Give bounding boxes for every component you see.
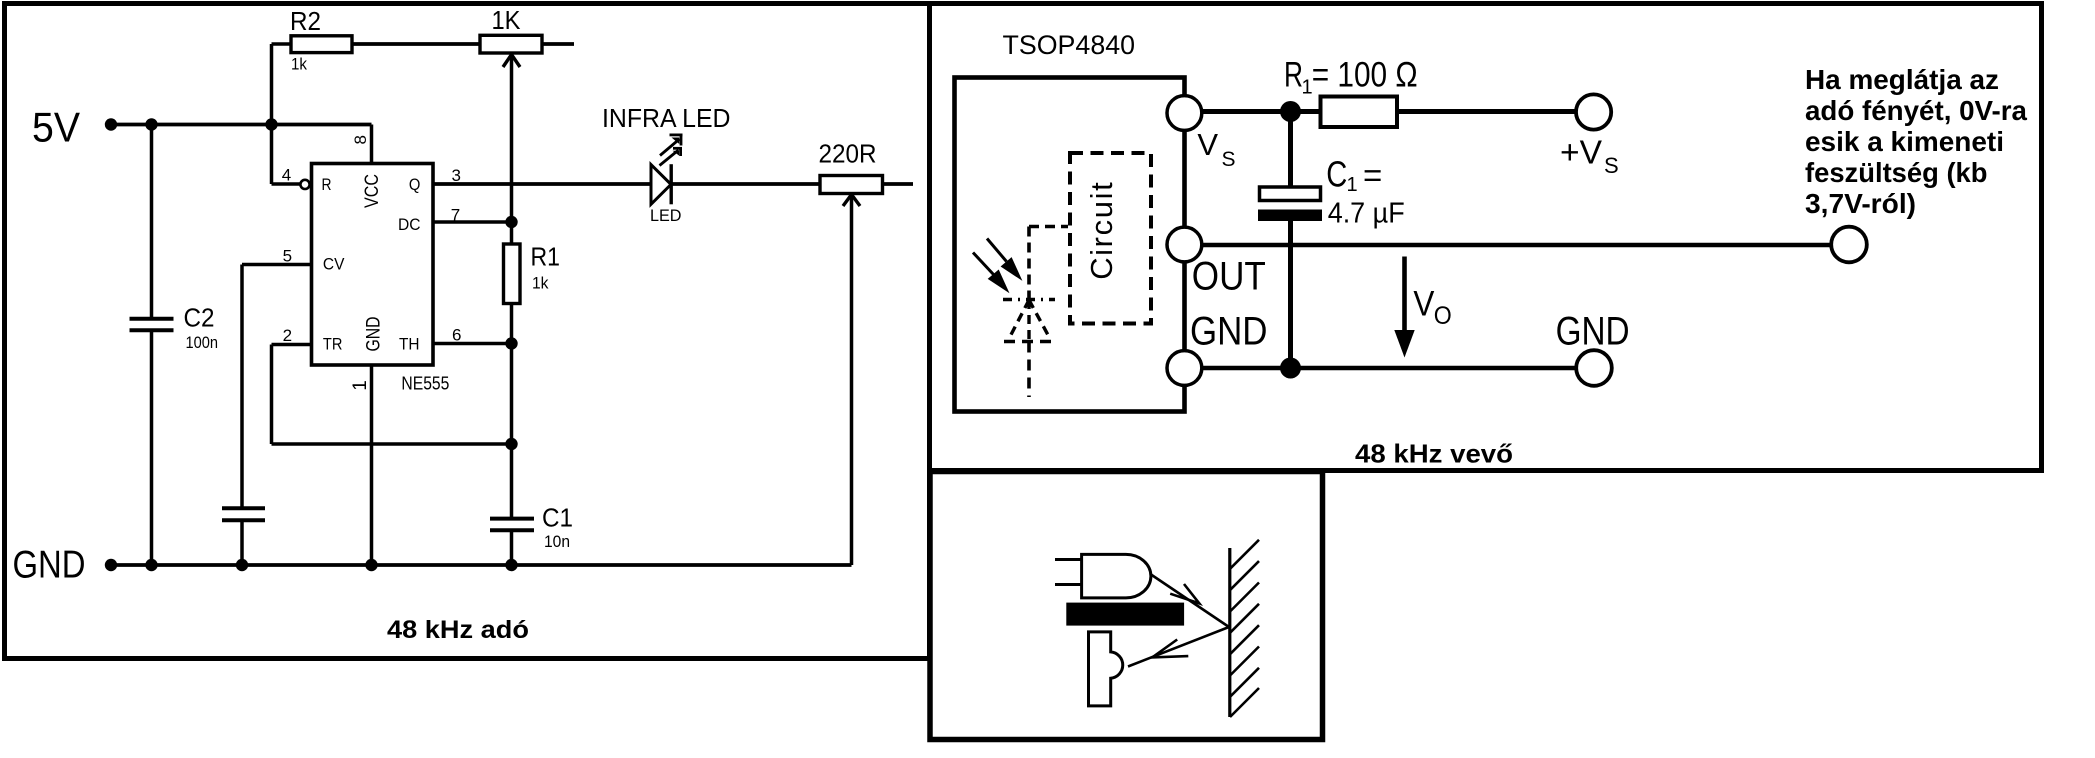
svg-text:O: O — [1434, 302, 1452, 330]
capacitor C2 — [130, 317, 174, 321]
wire R2/pin4 vertical — [270, 44, 274, 184]
photodiode incident light arrow 2 — [973, 253, 1010, 294]
wire pot wiper vertical — [510, 55, 514, 222]
wire LED to 220R — [671, 182, 820, 186]
photodiode optical axis dash-dot — [1003, 298, 1055, 301]
svg-text:4: 4 — [282, 166, 291, 185]
wire feedback row horizontal — [272, 442, 512, 446]
wire C2 branch upper — [150, 125, 154, 319]
svg-text:R: R — [322, 175, 332, 194]
frame: 48 kHz transmitter panel border — [5, 4, 930, 659]
LED D1 cathode bar — [670, 164, 673, 204]
svg-text:S: S — [1222, 148, 1236, 171]
svg-text:= 100 Ω: = 100 Ω — [1312, 55, 1418, 94]
pin circle VS — [1167, 96, 1202, 131]
pin circle GND — [1167, 351, 1202, 386]
illustration LED lead 2 — [1055, 583, 1082, 586]
wire VS to R1 — [1184, 109, 1320, 114]
wire pin2 TR horizontal — [272, 343, 312, 347]
wire pin6 TH — [433, 342, 512, 346]
LED D1 emission arrow 2 — [660, 148, 683, 165]
wire pin3 output — [433, 182, 651, 186]
svg-text:Q: Q — [409, 175, 421, 194]
svg-text:GND: GND — [1190, 310, 1268, 354]
wire pin4 horizontal — [272, 182, 300, 186]
wire C2 branch lower — [150, 330, 154, 565]
terminal +VS circle — [1576, 94, 1611, 129]
node junction VS/C1 — [1280, 101, 1301, 122]
svg-text:S: S — [1604, 153, 1619, 178]
node junction GND/C1 (receiver) — [1280, 358, 1301, 379]
wire R1 top — [510, 222, 514, 244]
svg-text:GND: GND — [13, 544, 86, 587]
resistor R1 (receiver) — [1321, 97, 1398, 128]
svg-text:LED: LED — [650, 206, 682, 225]
wire pin5 vertical — [240, 265, 244, 509]
svg-text:Circuit: Circuit — [1084, 182, 1119, 280]
svg-text:3,7V-ról): 3,7V-ról) — [1805, 188, 1916, 219]
svg-text:220R: 220R — [819, 138, 877, 168]
pin circle OUT — [1167, 227, 1202, 262]
illustration separator black bar — [1066, 603, 1184, 626]
frame: reflection illustration panel border — [930, 472, 1323, 740]
resistor R1 — [504, 244, 521, 304]
svg-text:8: 8 — [351, 135, 370, 144]
terminal GND circle — [1576, 350, 1612, 386]
wire 220R right stub — [883, 182, 914, 186]
node GND terminal — [105, 559, 117, 571]
capacitor C1 top plate — [1260, 187, 1321, 201]
node junction GND/C2 — [145, 559, 157, 571]
node junction 5V/R2-pin4 — [265, 118, 277, 130]
svg-text:GND: GND — [364, 317, 385, 352]
svg-text:+V: +V — [1560, 134, 1602, 171]
svg-text:Ha meglátja az: Ha meglátja az — [1805, 64, 1999, 95]
illustration wall hatching — [1230, 540, 1259, 717]
TSOP4840 module box — [955, 78, 1185, 412]
svg-text:VCC: VCC — [362, 174, 383, 208]
svg-text:R: R — [1284, 55, 1303, 94]
wire pot right stub — [542, 42, 574, 46]
capacitor CV (unlabeled) — [222, 506, 265, 510]
wire C1 upper — [510, 444, 514, 519]
node junction GND/pin1 — [365, 559, 377, 571]
wire R1 bottom — [510, 304, 514, 344]
svg-text:esik a kimeneti: esik a kimeneti — [1805, 126, 2004, 157]
wire 220R riser — [850, 196, 854, 565]
svg-text:R2: R2 — [290, 6, 321, 36]
svg-text:CV: CV — [323, 255, 345, 274]
svg-text:4.7 µF: 4.7 µF — [1328, 198, 1405, 230]
LED D1 emission arrow 1 — [660, 134, 683, 156]
illustration LED lead 1 — [1055, 558, 1082, 561]
svg-text:TR: TR — [323, 335, 343, 354]
svg-text:48 kHz adó: 48 kHz adó — [387, 616, 529, 644]
svg-text:DC: DC — [398, 215, 421, 234]
svg-text:adó fényét, 0V-ra: adó fényét, 0V-ra — [1805, 95, 2027, 126]
svg-text:TH: TH — [399, 335, 420, 354]
svg-text:C: C — [1326, 154, 1347, 195]
wire C1 lower — [510, 530, 514, 565]
illustration receiver body — [1089, 632, 1123, 706]
photodiode dashed triangle — [1009, 300, 1051, 341]
node junction pin6 — [505, 337, 517, 349]
svg-text:5: 5 — [283, 247, 292, 266]
detector circuit dashed box — [1070, 153, 1151, 324]
wire CV cap lower — [240, 520, 244, 565]
svg-text:R1: R1 — [531, 242, 561, 272]
terminal OUT circle — [1831, 227, 1867, 263]
illustration reflected beam — [1128, 627, 1229, 667]
wire GND — [1185, 366, 1576, 371]
svg-text:V: V — [1197, 127, 1218, 162]
svg-text:OUT: OUT — [1192, 255, 1266, 299]
wire pin8 riser — [370, 125, 374, 164]
220R riser arrowhead — [843, 195, 860, 207]
photodiode dashed link horizontal — [1029, 225, 1068, 229]
node junction pin7/R1 — [505, 216, 517, 228]
arrow VO — [1394, 257, 1414, 358]
svg-text:1k: 1k — [532, 274, 549, 293]
svg-text:C1: C1 — [542, 503, 573, 533]
svg-text:2: 2 — [283, 326, 292, 345]
wire R2 to pot 1K — [352, 42, 480, 46]
svg-text:100n: 100n — [186, 333, 219, 352]
node junction GND/CVcap — [236, 559, 248, 571]
wire C1 top — [1288, 112, 1293, 189]
wire C1 bottom — [1288, 221, 1293, 368]
svg-text:5V: 5V — [32, 104, 80, 151]
wire pin7 DC — [433, 220, 512, 224]
capacitor C1 — [490, 517, 534, 521]
illustration wall line — [1228, 548, 1231, 717]
wire pin1 GND vertical — [370, 365, 374, 565]
wire R2 left stub — [272, 42, 292, 46]
svg-text:TSOP4840: TSOP4840 — [1003, 30, 1136, 60]
photodiode dashed link vertical — [1027, 227, 1031, 300]
node 5V terminal — [105, 118, 117, 130]
svg-text:=: = — [1363, 157, 1382, 194]
wire OUT long — [1185, 243, 1832, 248]
svg-text:C2: C2 — [184, 303, 215, 333]
wire R1 to +VS terminal — [1397, 109, 1576, 114]
svg-text:6: 6 — [452, 326, 461, 345]
pot wiper arrowhead — [503, 55, 520, 68]
node junction feedback row — [505, 438, 517, 450]
photodiode dashed tail — [1027, 342, 1031, 398]
svg-text:INFRA LED: INFRA LED — [602, 103, 731, 133]
svg-text:1: 1 — [350, 380, 371, 391]
illustration LED body — [1082, 554, 1151, 598]
capacitor C1 bottom plate — [1258, 210, 1322, 222]
svg-text:feszültség (kb: feszültség (kb — [1805, 157, 1988, 188]
svg-text:1k: 1k — [291, 55, 307, 74]
svg-text:1: 1 — [1347, 174, 1358, 196]
wire GND rail — [111, 563, 852, 567]
potentiometer 1K body — [480, 35, 542, 53]
svg-text:48 kHz vevő: 48 kHz vevő — [1355, 439, 1513, 469]
photodiode dashed cathode bar — [1004, 340, 1052, 344]
frame: 48 kHz receiver panel border — [930, 4, 2042, 471]
node junction GND/C1 — [505, 559, 517, 571]
resistor R2 — [291, 36, 352, 53]
svg-text:GND: GND — [1556, 310, 1630, 354]
op-amp (timer) U1 NE555 box — [312, 164, 434, 366]
svg-text:NE555: NE555 — [401, 372, 449, 393]
svg-text:1K: 1K — [492, 5, 522, 35]
wire pin2 vertical — [270, 345, 274, 445]
inverter bubble at R pin — [300, 180, 309, 189]
photodiode incident light arrow 1 — [987, 239, 1022, 281]
svg-text:10n: 10n — [544, 532, 570, 551]
LED D1 triangle — [651, 165, 671, 205]
wire pin6 down to feedback row — [510, 344, 514, 445]
node junction 5V/C2 — [145, 118, 157, 130]
wire pin5 CV horizontal — [242, 263, 312, 267]
illustration beam to wall — [1151, 575, 1229, 628]
resistor 220R — [820, 176, 883, 194]
wire 5V rail — [111, 123, 372, 127]
svg-text:V: V — [1413, 285, 1435, 324]
